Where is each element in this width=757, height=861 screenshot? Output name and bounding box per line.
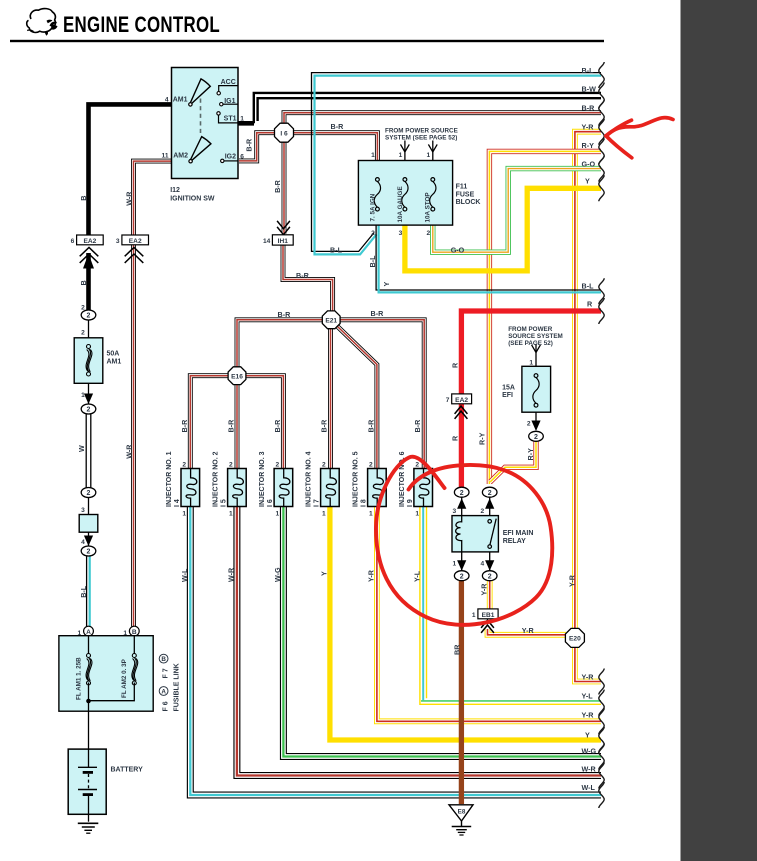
svg-text:4: 4 bbox=[481, 561, 485, 568]
svg-text:FUSIBLE LINK: FUSIBLE LINK bbox=[173, 663, 180, 711]
wire Y from F11 GAUGE fuse pin 3 to right edge bbox=[405, 188, 601, 271]
svg-text:B-L: B-L bbox=[330, 246, 343, 255]
svg-text:50A: 50A bbox=[107, 350, 120, 357]
svg-text:3: 3 bbox=[399, 230, 403, 237]
svg-text:IGNITION SW: IGNITION SW bbox=[170, 196, 215, 203]
svg-text:W-R: W-R bbox=[582, 764, 597, 773]
wire W-R injector No.2 to right edge bbox=[237, 507, 601, 776]
svg-text:B-L: B-L bbox=[79, 585, 88, 598]
svg-text:I 5: I 5 bbox=[221, 499, 228, 507]
svg-text:G-O: G-O bbox=[451, 246, 465, 255]
wire B-R I6 down to IH1 bbox=[282, 141, 287, 234]
svg-text:1: 1 bbox=[529, 359, 533, 366]
svg-text:4: 4 bbox=[81, 539, 85, 546]
wire Y injector No.4 to right edge bbox=[330, 507, 601, 741]
svg-text:I 6: I 6 bbox=[280, 131, 288, 138]
svg-text:EA2: EA2 bbox=[83, 238, 96, 245]
svg-text:EA2: EA2 bbox=[129, 238, 142, 245]
svg-text:AM2: AM2 bbox=[173, 152, 188, 159]
injector I 7 INJECTOR NO. 4 bbox=[321, 469, 340, 507]
svg-text:B-R: B-R bbox=[278, 310, 292, 319]
wire EFI main relay pin 2 lead bbox=[489, 498, 491, 516]
svg-text:IG2: IG2 bbox=[225, 154, 236, 161]
svg-text:FROM POWER SOURCE: FROM POWER SOURCE bbox=[385, 128, 458, 135]
fuse F11 7.5A IGN bbox=[374, 178, 380, 211]
svg-text:FROM POWER: FROM POWER bbox=[508, 326, 553, 333]
svg-text:F 6: F 6 bbox=[162, 701, 169, 711]
svg-text:15A: 15A bbox=[502, 384, 515, 391]
svg-text:R-Y: R-Y bbox=[477, 432, 486, 445]
ovals left column bbox=[81, 310, 96, 320]
ignition switch IG1 terminal bbox=[223, 103, 238, 105]
wire R-Y branch from 15A EFI fuse to relay pin 2 bbox=[490, 442, 536, 482]
svg-text:ACC: ACC bbox=[221, 79, 236, 86]
svg-text:Y-R: Y-R bbox=[366, 569, 375, 582]
injector I 9 INJECTOR NO. 6 bbox=[414, 469, 433, 507]
relay EFI MAIN RELAY body bbox=[452, 516, 498, 552]
svg-text:Y: Y bbox=[585, 730, 590, 739]
connector EA2 pin 7 bbox=[452, 394, 472, 404]
svg-text:Y-R: Y-R bbox=[479, 583, 488, 596]
svg-text:1: 1 bbox=[369, 511, 373, 518]
svg-text:B: B bbox=[79, 196, 88, 201]
svg-text:Y-L: Y-L bbox=[582, 691, 594, 700]
svg-text:EB1: EB1 bbox=[482, 612, 495, 619]
svg-text:INJECTOR NO. 5: INJECTOR NO. 5 bbox=[353, 451, 360, 507]
wire link oval to 50A AM1 fuse bbox=[88, 320, 90, 338]
svg-text:2: 2 bbox=[371, 230, 375, 237]
svg-text:B-L: B-L bbox=[582, 281, 595, 290]
header sketch icon bbox=[27, 9, 56, 33]
svg-text:3: 3 bbox=[116, 238, 120, 245]
arrow into oval below junction box bbox=[84, 536, 93, 547]
svg-text:B-L: B-L bbox=[368, 255, 377, 268]
wire W-L injector No.1 to right edge bbox=[190, 507, 601, 796]
svg-text:SOURCE SYSTEM: SOURCE SYSTEM bbox=[508, 333, 563, 340]
svg-text:Y-R: Y-R bbox=[522, 626, 535, 635]
ignition switch AM2 contact and wiper bbox=[189, 160, 192, 163]
wire B-R I6 to F11 fuse block pin 1 bbox=[292, 133, 377, 161]
svg-text:10A GAUGE: 10A GAUGE bbox=[397, 186, 404, 222]
wire B-R I6 up to right edge bbox=[284, 113, 601, 141]
svg-text:I 8: I 8 bbox=[361, 499, 368, 507]
svg-text:B-W: B-W bbox=[582, 85, 597, 94]
svg-text:EFI MAIN: EFI MAIN bbox=[503, 530, 534, 537]
node E20 bbox=[565, 628, 584, 647]
svg-text:B-R: B-R bbox=[413, 419, 422, 433]
svg-text:F 7: F 7 bbox=[162, 668, 169, 678]
right dark sidebar band bbox=[681, 0, 757, 861]
svg-text:7. 5A IGN: 7. 5A IGN bbox=[369, 193, 376, 221]
node I6 bbox=[275, 123, 294, 142]
svg-text:14: 14 bbox=[263, 238, 271, 245]
connector EA2 pin 3 bbox=[122, 235, 149, 245]
break squiggles at right edge bbox=[599, 62, 604, 88]
ground below battery bbox=[78, 822, 99, 824]
svg-text:4: 4 bbox=[165, 96, 169, 103]
wire Y-R EFI main relay pin 4 down to connector EB1 bbox=[487, 581, 493, 609]
wire Y-R injector No.5 to right edge bbox=[377, 507, 601, 722]
svg-text:2: 2 bbox=[369, 461, 373, 468]
svg-text:3: 3 bbox=[453, 508, 457, 515]
svg-text:W-L: W-L bbox=[180, 568, 189, 582]
svg-text:1: 1 bbox=[472, 612, 476, 619]
svg-text:2: 2 bbox=[415, 461, 419, 468]
injector I 5 INJECTOR NO. 2 bbox=[228, 469, 247, 507]
node oval 2 below 15A EFI bbox=[529, 431, 544, 441]
svg-text:I 7: I 7 bbox=[314, 499, 321, 507]
relay ovals 2 bbox=[454, 487, 469, 497]
svg-text:W-G: W-G bbox=[582, 746, 597, 755]
svg-text:6: 6 bbox=[240, 154, 244, 161]
svg-text:10A STOP: 10A STOP bbox=[425, 192, 432, 222]
svg-text:IH1: IH1 bbox=[278, 238, 289, 245]
svg-text:I12: I12 bbox=[170, 187, 180, 194]
svg-text:Y-L: Y-L bbox=[413, 570, 422, 582]
svg-text:2: 2 bbox=[527, 420, 531, 427]
svg-text:E16: E16 bbox=[231, 374, 243, 381]
fusible link block body bbox=[59, 636, 153, 712]
svg-text:Y: Y bbox=[319, 571, 328, 576]
svg-text:R: R bbox=[451, 435, 460, 441]
wire B from connector EA2-6 to 2-pin oval bbox=[86, 253, 91, 311]
svg-text:I 6: I 6 bbox=[267, 499, 274, 507]
wire Y-L injector No.6 to right edge bbox=[420, 507, 601, 705]
svg-text:ENGINE CONTROL: ENGINE CONTROL bbox=[63, 12, 220, 37]
svg-text:AM1: AM1 bbox=[107, 359, 122, 366]
wire Y-R below E20 to right edge bbox=[575, 648, 601, 682]
svg-text:B-R: B-R bbox=[227, 419, 236, 433]
svg-text:B-R: B-R bbox=[582, 103, 596, 112]
svg-text:B-R: B-R bbox=[273, 179, 282, 193]
fusible link FL AM2 0.3P bbox=[90, 636, 134, 701]
svg-text:B-R: B-R bbox=[320, 419, 329, 433]
svg-text:1: 1 bbox=[427, 152, 431, 159]
svg-text:B: B bbox=[132, 629, 137, 636]
wire B-R E16 east to injector No.3 bbox=[237, 376, 283, 469]
svg-text:W: W bbox=[77, 445, 86, 452]
junction dot bbox=[86, 699, 91, 704]
svg-text:1: 1 bbox=[415, 511, 419, 518]
svg-text:Y-R: Y-R bbox=[582, 122, 595, 131]
wire oval to junction box pin 3 bbox=[88, 497, 90, 515]
svg-text:E21: E21 bbox=[325, 318, 337, 325]
ignition switch I12 body bbox=[172, 68, 239, 179]
svg-text:1: 1 bbox=[240, 115, 244, 122]
svg-text:R-Y: R-Y bbox=[582, 141, 595, 150]
relay coil bbox=[456, 516, 462, 552]
svg-text:B-R: B-R bbox=[180, 419, 189, 433]
svg-text:2: 2 bbox=[81, 330, 85, 337]
svg-text:FL AM1 1. 25B: FL AM1 1. 25B bbox=[75, 657, 82, 700]
injector I 6 INJECTOR NO. 3 bbox=[274, 469, 293, 507]
header rule bbox=[10, 40, 604, 42]
wire W-R connector EA2-3 down to fusible link terminal B bbox=[131, 245, 136, 626]
wire B-R E21 diagonal to injector No.5 bbox=[338, 327, 377, 469]
svg-text:E8: E8 bbox=[458, 809, 466, 816]
svg-text:A: A bbox=[86, 629, 91, 636]
fuse block F11 body bbox=[358, 161, 452, 226]
wire EFI main relay pin 1 lead bbox=[461, 552, 463, 570]
arrow into oval below 50A AM1 fuse bbox=[84, 394, 93, 405]
injector I 8 INJECTOR NO. 5 bbox=[368, 469, 387, 507]
svg-text:INJECTOR NO. 2: INJECTOR NO. 2 bbox=[213, 451, 220, 507]
svg-text:B-R: B-R bbox=[296, 271, 310, 280]
svg-text:2: 2 bbox=[427, 230, 431, 237]
fuse F11 10A STOP bbox=[430, 178, 436, 211]
svg-text:1: 1 bbox=[182, 511, 186, 518]
svg-text:2: 2 bbox=[322, 461, 326, 468]
connector EA2 pin 6 bbox=[77, 235, 104, 245]
wire G-O from F11 STOP fuse pin 2 to right edge bbox=[433, 169, 601, 253]
svg-text:B-R: B-R bbox=[244, 138, 253, 152]
svg-text:1: 1 bbox=[322, 511, 326, 518]
wire B-R E16 west to injector No.1 bbox=[190, 376, 237, 469]
wire W-R ignition switch AM2 to connector EA2-3 bbox=[134, 161, 172, 235]
svg-text:AM1: AM1 bbox=[173, 96, 188, 103]
hand-drawn red arrow annotation (top right) bbox=[606, 118, 673, 136]
wire B-R E21 east to injector No.6 bbox=[331, 320, 424, 469]
svg-text:B: B bbox=[79, 280, 88, 285]
svg-text:E20: E20 bbox=[569, 636, 581, 643]
svg-text:SYSTEM (SEE PAGE 52): SYSTEM (SEE PAGE 52) bbox=[385, 135, 457, 142]
svg-text:BATTERY: BATTERY bbox=[111, 766, 144, 773]
svg-text:(SEE PAGE 52): (SEE PAGE 52) bbox=[508, 340, 553, 347]
svg-text:2: 2 bbox=[276, 461, 280, 468]
wire 15A EFI fuse feed from power source bbox=[535, 344, 537, 430]
svg-text:FUSE: FUSE bbox=[456, 191, 475, 198]
svg-text:I 4: I 4 bbox=[174, 499, 181, 507]
svg-text:6: 6 bbox=[71, 238, 75, 245]
wire EFI main relay pin 3 lead bbox=[461, 498, 463, 516]
svg-text:3: 3 bbox=[81, 507, 85, 514]
wire B-R IH1 down to E21 bbox=[283, 246, 333, 313]
wire B-R E21 south to injector No.4 bbox=[328, 328, 333, 469]
arrows into relay ovals bbox=[457, 498, 466, 509]
svg-text:Y-R: Y-R bbox=[567, 574, 576, 587]
arrow on B wire below EA2-6 bbox=[83, 254, 94, 269]
svg-text:Y: Y bbox=[585, 177, 590, 186]
junction box bbox=[79, 515, 98, 533]
relay switch contact bbox=[488, 520, 492, 524]
ignition switch AM1 contact and wiper bbox=[189, 103, 192, 106]
node E21 bbox=[322, 311, 340, 329]
svg-text:W-R: W-R bbox=[124, 191, 133, 206]
wire B-L from F11 IGN fuse pin 2 down to right edge bbox=[376, 225, 601, 290]
wire W between ovals bbox=[85, 414, 87, 488]
svg-text:EFI: EFI bbox=[502, 392, 513, 399]
svg-text:1: 1 bbox=[453, 561, 457, 568]
svg-text:INJECTOR NO. 4: INJECTOR NO. 4 bbox=[306, 451, 313, 507]
arrow into oval below 15A EFI bbox=[531, 421, 540, 432]
injector I 4 INJECTOR NO. 1 bbox=[181, 469, 200, 507]
svg-text:W-R: W-R bbox=[124, 444, 133, 459]
svg-text:B-R: B-R bbox=[331, 122, 345, 131]
wire W-G injector No.3 to right edge bbox=[283, 507, 601, 757]
svg-text:RELAY: RELAY bbox=[503, 538, 526, 545]
wire Y-R top right exit down to E20 bbox=[575, 132, 601, 629]
wire R from EFI main relay pin 3 via EA2 to right edge bbox=[461, 311, 601, 487]
svg-text:R: R bbox=[451, 362, 460, 368]
from power source arrows into F11 bbox=[401, 144, 410, 152]
fusible link terminals A and B bbox=[84, 626, 94, 636]
ignition switch IG2 terminal bbox=[224, 160, 238, 162]
svg-text:1: 1 bbox=[229, 511, 233, 518]
svg-text:B-L: B-L bbox=[582, 66, 595, 75]
fuse 15A EFI body bbox=[522, 366, 551, 412]
wire F11 internal fuse leads bbox=[377, 161, 432, 226]
wire B-R ignition switch IG2 to I6 bbox=[239, 133, 276, 161]
battery plates bbox=[88, 749, 90, 767]
svg-text:IG1: IG1 bbox=[224, 98, 235, 105]
svg-text:1: 1 bbox=[399, 152, 403, 159]
wire F11 GAUGE fuse feed from power source bbox=[404, 141, 406, 161]
svg-text:A: A bbox=[161, 689, 166, 696]
wire Y-R connector EB1 to E20 bbox=[488, 629, 567, 635]
svg-text:INJECTOR NO. 1: INJECTOR NO. 1 bbox=[166, 451, 173, 507]
svg-text:W-L: W-L bbox=[582, 783, 596, 792]
ignition switch mechanical link (dashed) bbox=[200, 99, 202, 134]
svg-text:BR: BR bbox=[452, 644, 461, 655]
svg-text:1: 1 bbox=[276, 511, 280, 518]
svg-text:Y: Y bbox=[382, 282, 391, 287]
from power source arrow into 15A EFI bbox=[532, 345, 541, 353]
svg-text:W-G: W-G bbox=[273, 567, 282, 582]
wire R-Y right exit down to EFI main relay pin 2 bbox=[489, 151, 601, 484]
svg-text:Y-R: Y-R bbox=[582, 672, 595, 681]
fusible link FL AM1 1.25B bbox=[88, 636, 90, 701]
svg-text:11: 11 bbox=[162, 152, 169, 159]
wire B-W from ignition switch ST1 to right edge bbox=[237, 121, 254, 126]
svg-text:2: 2 bbox=[182, 461, 186, 468]
svg-text:W-R: W-R bbox=[226, 567, 235, 582]
svg-text:ST1: ST1 bbox=[224, 115, 237, 122]
svg-text:B-R: B-R bbox=[367, 419, 376, 433]
svg-text:EA2: EA2 bbox=[455, 397, 468, 404]
svg-text:B-R: B-R bbox=[273, 419, 282, 433]
svg-text:FL AM2 0. 3P: FL AM2 0. 3P bbox=[121, 659, 128, 698]
hand-drawn red circle annotation around EFI main relay bbox=[376, 457, 552, 625]
svg-text:F11: F11 bbox=[456, 184, 468, 191]
svg-text:R: R bbox=[587, 300, 593, 309]
wire EFI main relay pin 4 lead bbox=[489, 552, 491, 570]
wire B-R E21 west to E16 bbox=[237, 320, 331, 368]
svg-text:1: 1 bbox=[81, 392, 85, 399]
ignition switch ST1 terminal bbox=[219, 115, 238, 123]
fuse 50A AM1 bbox=[74, 338, 103, 384]
svg-text:2: 2 bbox=[481, 508, 485, 515]
wire B-L from F11 IGN fuse pin 2 up-left to top right edge bbox=[312, 73, 602, 252]
wire B-L oval down to fusible link terminal A bbox=[86, 556, 88, 626]
connector EB1 pin 1 bbox=[478, 609, 498, 619]
ground E8 bbox=[449, 805, 473, 821]
battery body bbox=[68, 749, 106, 814]
wire junction box pin 4 to oval bbox=[88, 532, 90, 545]
svg-text:2: 2 bbox=[81, 305, 85, 312]
wire BR EFI main relay pin 1 down to ground E8 bbox=[459, 581, 464, 804]
svg-text:Y-R: Y-R bbox=[582, 710, 595, 719]
svg-text:2: 2 bbox=[229, 461, 233, 468]
wire fusible link block to battery bbox=[88, 701, 90, 749]
svg-text:INJECTOR NO. 3: INJECTOR NO. 3 bbox=[259, 451, 266, 507]
svg-text:7: 7 bbox=[446, 397, 450, 404]
wire 50A AM1 fuse pin 1 to oval bbox=[88, 383, 90, 403]
svg-text:R-Y: R-Y bbox=[526, 448, 535, 461]
fuse F11 10A GAUGE bbox=[402, 178, 408, 211]
wire F11 STOP fuse feed from power source bbox=[432, 141, 434, 161]
wire B-R E16 south to injector No.2 bbox=[235, 383, 240, 469]
svg-text:B: B bbox=[161, 656, 166, 663]
wire B from ignition switch AM1 down to connector EA2-6 bbox=[89, 104, 172, 235]
node E16 bbox=[228, 367, 246, 385]
svg-text:G-O: G-O bbox=[582, 159, 596, 168]
svg-text:BLOCK: BLOCK bbox=[456, 199, 481, 206]
svg-text:B-R: B-R bbox=[371, 309, 385, 318]
svg-text:1: 1 bbox=[371, 152, 375, 159]
svg-text:I 9: I 9 bbox=[407, 499, 414, 507]
ignition switch ACC terminal bbox=[219, 86, 238, 91]
connector IH1 pin 14 bbox=[277, 221, 290, 229]
